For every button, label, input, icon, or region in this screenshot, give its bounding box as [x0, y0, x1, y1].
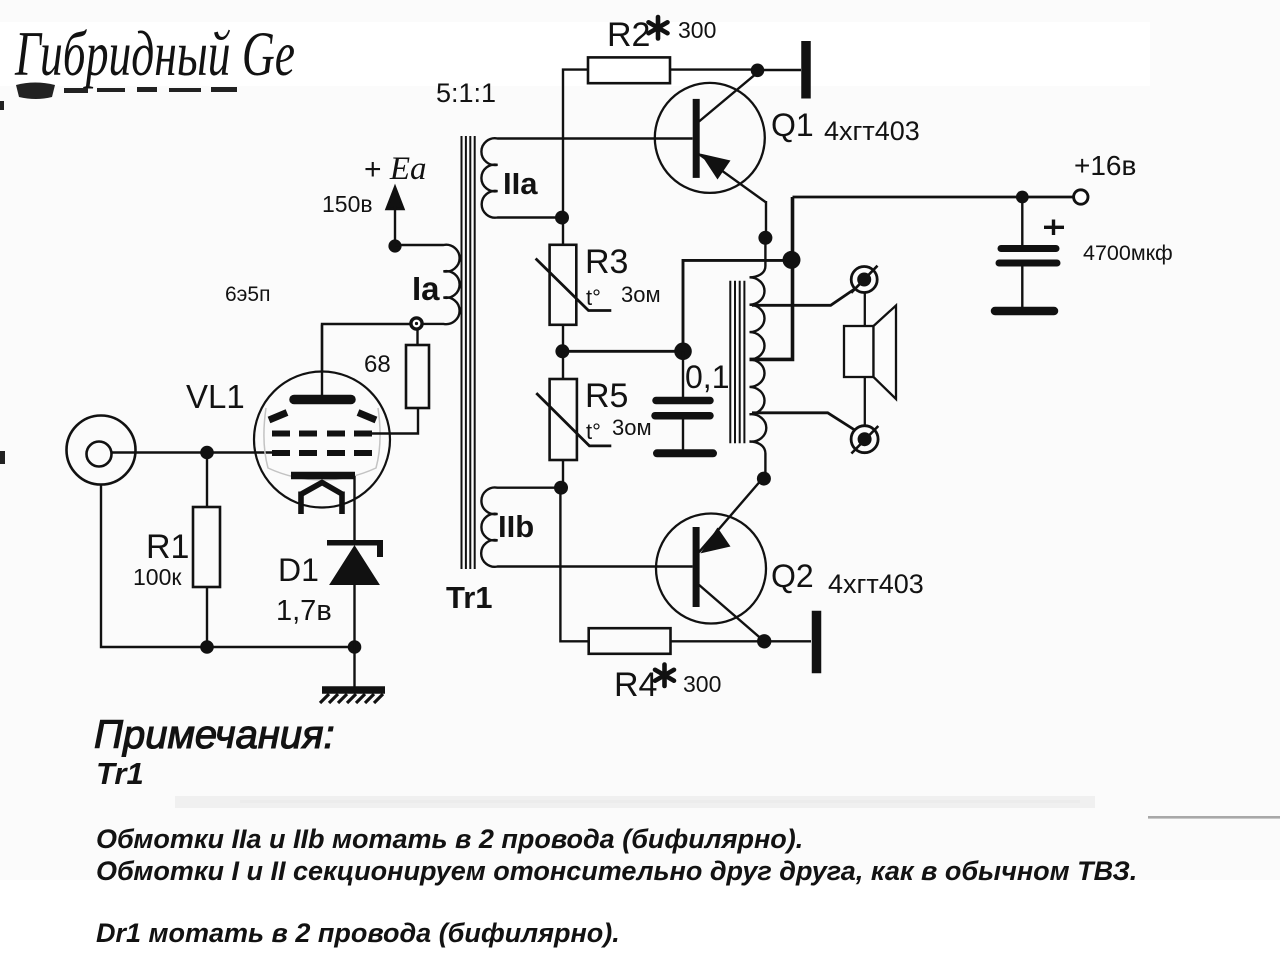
wire junction to 0,1 [683, 260, 792, 351]
svg-text:Примечания:: Примечания: [94, 713, 335, 757]
svg-text:Tr1: Tr1 [96, 756, 144, 791]
diode D1 zener [327, 543, 383, 647]
tube VL1 envelope [254, 372, 390, 508]
wire grid1 to resistor 68 [372, 409, 418, 434]
wire cathode to D1 [353, 476, 355, 540]
svg-text:Q2: Q2 [771, 558, 814, 594]
node 0,1 top [674, 343, 692, 361]
collector bar Q1 [801, 41, 811, 99]
output terminal bottom [851, 426, 878, 454]
wire Ea node to Ia [395, 244, 432, 246]
tube anode [294, 325, 351, 400]
faint line right edge [1148, 816, 1280, 819]
svg-text:IIb: IIb [498, 509, 534, 544]
wire node A to tube grid [207, 451, 273, 453]
erased second title line remnants [0, 83, 237, 465]
svg-text:4хгт403: 4хгт403 [824, 116, 920, 146]
svg-text:6э5п: 6э5п [225, 283, 270, 306]
tap wire top to terminal [752, 289, 855, 306]
svg-text:Ia: Ia [412, 270, 440, 307]
svg-text:R3: R3 [585, 243, 628, 281]
wire IIb node down to R4 [560, 488, 588, 642]
svg-text:150в: 150в [322, 191, 373, 217]
node R1 bottom [200, 640, 214, 654]
svg-text:Обмотки I и II секционируем от: Обмотки I и II секционируем отонсительно… [96, 856, 1137, 886]
transistor Q1 [655, 72, 767, 202]
resistor R4 [589, 628, 765, 654]
svg-text:R4: R4 [614, 666, 657, 704]
resistor R3 thermistor [536, 245, 612, 351]
wire R3 node to 0,1 node [562, 350, 683, 353]
wire IIa bottom to R3 [562, 139, 564, 245]
tap wire bottom to terminal [752, 413, 855, 430]
svg-text:R1: R1 [146, 528, 189, 566]
winding IIa [481, 138, 692, 217]
node Q2 emitter / winding bottom [757, 472, 771, 486]
ground [320, 647, 385, 703]
transistor Q2 [656, 479, 766, 642]
input jack J1 [67, 416, 136, 485]
tube grid row 1 [272, 431, 372, 437]
resistor R5 thermistor [536, 351, 611, 487]
svg-text:300: 300 [678, 17, 716, 43]
wire input to node A [111, 451, 207, 453]
node R3 bottom [555, 344, 569, 358]
node R2-collector [751, 64, 765, 78]
svg-text:1,7в: 1,7в [276, 595, 332, 627]
wire jack down [101, 485, 207, 648]
svg-text:4хгт403: 4хгт403 [828, 569, 924, 599]
svg-text:3ом: 3ом [621, 282, 661, 307]
svg-text:R2: R2 [607, 16, 650, 54]
node R5 bottom / IIb top [554, 481, 568, 495]
wire to Q2 bar [764, 640, 811, 642]
wire R2 to bar [758, 69, 802, 71]
node R4 right [757, 634, 771, 648]
tube grid row 2 [272, 450, 372, 456]
node +16 junction [783, 251, 801, 269]
svg-text:100к: 100к [133, 564, 182, 590]
tube inner envelope faint [264, 408, 380, 480]
svg-text:+ Ea: + Ea [364, 151, 427, 187]
transformer Tr1 core [462, 136, 475, 569]
tube heater [301, 483, 342, 515]
supply +Ea arrow [387, 187, 404, 246]
node Ea / Ia top [388, 239, 401, 252]
resistor 68 [406, 329, 429, 408]
capacitor 0,1 [655, 351, 713, 453]
svg-text:4700мкф: 4700мкф [1083, 241, 1173, 265]
winding II output [750, 238, 767, 479]
svg-text:IIa: IIa [503, 166, 538, 201]
wire bottom rail [207, 646, 355, 648]
svg-text:Tr1: Tr1 [446, 580, 493, 615]
svg-text:68: 68 [364, 351, 391, 378]
faint erased-text smudge band [175, 796, 1095, 808]
terminal +16в [1074, 190, 1088, 204]
node cap 4700 [1016, 191, 1029, 204]
svg-text:Dr1 мотать в 2 провода (бифиля: Dr1 мотать в 2 провода (бифилярно). [96, 918, 620, 948]
svg-text:Обмотки IIа и IIb мотать в 2 п: Обмотки IIа и IIb мотать в 2 провода (би… [96, 824, 803, 854]
node A [200, 446, 214, 460]
node D1 bottom [348, 640, 362, 654]
resistor R2 [563, 57, 758, 138]
label R4 star [655, 665, 674, 687]
resistor R1 [193, 453, 220, 648]
svg-text:D1: D1 [278, 552, 319, 588]
svg-text:Q1: Q1 [771, 107, 814, 143]
svg-text:300: 300 [683, 671, 721, 697]
tube screen dashes [269, 413, 376, 421]
wire +16 rail vertical [750, 197, 793, 359]
winding IIb [481, 487, 692, 566]
svg-text:VL1: VL1 [186, 378, 245, 415]
svg-text:5:1:1: 5:1:1 [436, 78, 496, 108]
svg-text:t°: t° [586, 419, 601, 444]
wire Ia node to anode [322, 324, 411, 372]
speaker [844, 293, 896, 426]
winding Ia [422, 245, 460, 324]
capacitor 4700мкф [995, 197, 1064, 311]
svg-text:0,1: 0,1 [685, 359, 729, 395]
output transformer core [730, 281, 744, 444]
node on emitter [758, 231, 772, 245]
svg-text:t°: t° [586, 285, 601, 310]
tube cathode [291, 472, 355, 480]
node IIa bottom [555, 211, 569, 225]
svg-text:3ом: 3ом [612, 415, 652, 440]
wire Q1 emitter down [765, 201, 767, 238]
wire +16 horizontal [793, 196, 1074, 199]
output terminal top [851, 266, 877, 293]
label R2 star [649, 17, 668, 39]
svg-text:+16в: +16в [1074, 150, 1136, 181]
node Ia bottom (ring) [411, 318, 422, 329]
svg-text:Гибридный Ge: Гибридный Ge [14, 19, 295, 89]
svg-text:R5: R5 [585, 377, 628, 415]
collector bar Q2 [812, 611, 822, 673]
